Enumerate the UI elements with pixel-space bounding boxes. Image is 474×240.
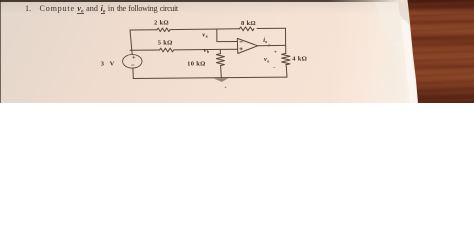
svg-text:V: V bbox=[110, 60, 115, 67]
bright highlight along page edge bbox=[0, 0, 474, 103]
dark top photo edge bbox=[0, 0, 400, 2]
svg-text:2 kΩ: 2 kΩ bbox=[154, 20, 169, 27]
wire: top rail from left rail through 2k and 8k to right rail bbox=[130, 29, 157, 31]
wire: bottom rail bbox=[133, 77, 287, 78]
wire: top rail middle segment bbox=[170, 28, 240, 31]
source plus sign bbox=[132, 56, 135, 59]
svg-text:4 kΩ: 4 kΩ bbox=[292, 55, 307, 62]
svg-text:−: − bbox=[273, 67, 276, 72]
op-amp plus input sign bbox=[240, 48, 243, 51]
wire: v_a drop from top rail bbox=[216, 29, 218, 41]
svg-text:o: o bbox=[267, 58, 269, 63]
voltage source V1 3V (circle) bbox=[123, 55, 142, 69]
current arrow i_o on output wire bbox=[268, 44, 273, 46]
wooden table surface bbox=[0, 0, 474, 103]
wire: top rail right end bbox=[257, 27, 286, 29]
wire: v_a to op-amp inverting input bbox=[217, 41, 238, 43]
shaded paper corner near wood bbox=[0, 0, 474, 103]
svg-text:+: + bbox=[274, 50, 277, 55]
svg-text:8 kΩ: 8 kΩ bbox=[241, 20, 256, 27]
svg-text:10 kΩ: 10 kΩ bbox=[187, 60, 205, 67]
wire: left rail lower (source bottom to bottom rail) bbox=[132, 68, 134, 78]
problem statement title bbox=[25, 4, 178, 15]
wire: op-amp output to right rail bbox=[258, 44, 285, 46]
svg-text:a: a bbox=[206, 34, 208, 39]
paper sheet background bbox=[0, 0, 474, 103]
resistor R4 10 kOhm (vertical zigzag) bbox=[216, 54, 224, 66]
wire: right rail upper (feedback node down to output node) bbox=[285, 28, 287, 45]
resistor R3 5 kOhm (zigzag) bbox=[160, 48, 174, 52]
source minus sign bbox=[132, 64, 134, 66]
resistor R2 8 kOhm (zigzag, top right) bbox=[240, 27, 254, 31]
wire: 5k branch from left rail bbox=[130, 49, 159, 51]
wire: 10k bottom to bottom rail bbox=[220, 66, 223, 78]
op-amp minus input sign bbox=[240, 41, 243, 43]
bright page-edge band bbox=[0, 0, 474, 103]
wire: right rail from output node to 4k top bbox=[285, 45, 287, 53]
labels bbox=[101, 20, 307, 72]
ground (arrow style) below bottom rail bbox=[214, 78, 229, 82]
paper speck bbox=[225, 87, 227, 89]
svg-text:5 kΩ: 5 kΩ bbox=[158, 39, 173, 46]
resistor R5 4 kOhm (vertical zigzag) bbox=[282, 53, 290, 64]
svg-text:o: o bbox=[265, 39, 267, 44]
dark left photo edge bbox=[0, 0, 1, 103]
wire: 4k bottom to bottom rail bbox=[285, 65, 288, 77]
svg-text:3: 3 bbox=[101, 60, 105, 67]
op-amp U1 (triangle) bbox=[237, 38, 257, 53]
wire: left rail upper (to source top) bbox=[130, 30, 132, 55]
lit paper edge glow bbox=[0, 0, 474, 103]
resistor R1 2 kOhm (zigzag, top left) bbox=[157, 28, 170, 32]
wire: 10k drop from v_b node bbox=[219, 49, 221, 53]
wire: v_b node wire to op-amp noninverting input bbox=[174, 48, 238, 51]
